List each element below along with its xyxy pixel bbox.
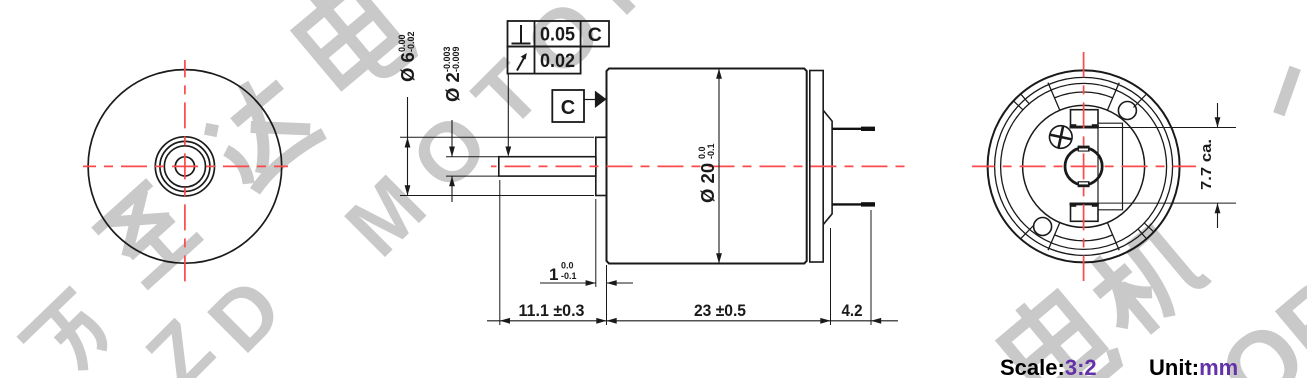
datum box C: [552, 90, 606, 122]
right view red centerline horizontal: [972, 165, 1196, 167]
tolerance frame perpendicularity: [508, 21, 610, 47]
svg-text:Unit:mm: Unit:mm: [1149, 355, 1238, 378]
shaft rectangle: [499, 157, 596, 176]
svg-text:0.0: 0.0: [561, 261, 574, 271]
dim line 4.2: [831, 320, 872, 322]
left view hub circle r25: [160, 141, 210, 191]
svg-text:Ø 2: Ø 2: [442, 72, 463, 102]
watermark char 至: [95, 181, 201, 286]
extension line boss start: [595, 199, 597, 287]
svg-text:-0.1: -0.1: [706, 143, 716, 159]
7.7 dimension line: [1217, 103, 1219, 128]
dia2 dimension line: [451, 120, 453, 157]
rear cap rectangle: [810, 71, 823, 263]
left view hub circle r30: [155, 137, 214, 196]
watermark char 达 (partial): [197, 64, 324, 191]
svg-text:Scale:3:2: Scale:3:2: [1000, 355, 1097, 378]
svg-text:0.02: 0.02: [540, 50, 575, 72]
watermark char 电: [288, 0, 416, 100]
center tab bottom: [1078, 181, 1090, 187]
extension line pin end: [870, 210, 872, 325]
right view outer circle: [988, 70, 1180, 262]
7.7 extension line bottom: [1099, 202, 1236, 204]
svg-text:Ø 20: Ø 20: [697, 163, 718, 203]
svg-text:7.7 ca.: 7.7 ca.: [1198, 139, 1215, 190]
svg-text:0.05: 0.05: [540, 24, 575, 46]
dia20 dimension line: [718, 69, 720, 264]
svg-text:C: C: [561, 97, 575, 119]
svg-text:11.1 ±0.3: 11.1 ±0.3: [519, 301, 585, 320]
svg-text:-0.02: -0.02: [406, 31, 416, 52]
left view hub circle r21: [164, 146, 205, 187]
dia6 dimension line: [407, 97, 409, 196]
cap chord line: [1098, 123, 1123, 210]
watermark char 机: [1077, 211, 1212, 346]
bottom vent: side lines, inner arc: [1048, 223, 1119, 251]
watermark stray stroke top right: [1264, 68, 1307, 114]
extension line body left: [606, 265, 608, 325]
extension line housing right: [830, 228, 832, 325]
radial lines top left pair: [1014, 95, 1029, 110]
dia6 extension lines: [400, 136, 594, 138]
radial lines bottom right pair: [1138, 223, 1153, 238]
runout symbol: [517, 53, 527, 71]
datum triangle: [595, 91, 607, 108]
left view shaft circle: [175, 157, 194, 176]
svg-text:C: C: [588, 24, 602, 46]
brush housing profile: [823, 110, 832, 224]
dim line 23: [607, 320, 831, 322]
right view ring r89: [995, 77, 1173, 255]
radial line bottom left: [1021, 225, 1033, 238]
terminal pin bottom: [832, 203, 875, 205]
left view red centerline horizontal: [83, 165, 288, 167]
dim line 11.1: [487, 320, 607, 322]
dia2 label: [442, 46, 463, 102]
tolerance frame runout: [508, 47, 581, 74]
extension line shaft end: [499, 180, 501, 325]
leader from frames to shaft: [505, 74, 511, 157]
terminal pin top: [832, 128, 875, 130]
dim line 1mm: [540, 282, 596, 284]
7.7 extension line top: [1099, 127, 1236, 129]
right view cap circle: [1023, 105, 1145, 227]
svg-text:-0.009: -0.009: [451, 46, 461, 72]
svg-text:4.2: 4.2: [842, 301, 863, 320]
left view red centerline vertical: [184, 60, 186, 283]
brush holder rect top: [1070, 110, 1099, 129]
right view ring r83: [1001, 83, 1167, 249]
middle view red centerline: [491, 165, 908, 167]
svg-text:-0.1: -0.1: [561, 271, 577, 281]
svg-text:1: 1: [549, 265, 558, 284]
brush card edge vertical: [1097, 128, 1099, 204]
dia20 label: [697, 143, 718, 203]
small hole bottom left: [1034, 218, 1052, 236]
center tab top: [1078, 146, 1090, 152]
watermark char 万: [20, 289, 119, 378]
svg-text:Ø 6: Ø 6: [397, 52, 418, 82]
right view red centerline vertical: [1083, 52, 1085, 281]
top vent: side lines, inner arc: [1048, 83, 1119, 111]
motor body rectangle: [607, 69, 807, 264]
small hole top right: [1118, 102, 1136, 120]
brush holder rect bottom: [1070, 203, 1099, 222]
left view outer circle: [88, 70, 282, 264]
perpendicularity symbol: [512, 25, 531, 44]
dia2 extension lines: [446, 156, 499, 158]
shaft boss rectangle: [596, 137, 607, 195]
screw circle: [1047, 124, 1074, 151]
dia6 label: [397, 31, 418, 82]
radial line top right: [1134, 95, 1146, 108]
center bore circle: [1065, 148, 1102, 185]
watermark char 电 right: [993, 279, 1121, 378]
svg-text:23 ±0.5: 23 ±0.5: [694, 301, 746, 320]
